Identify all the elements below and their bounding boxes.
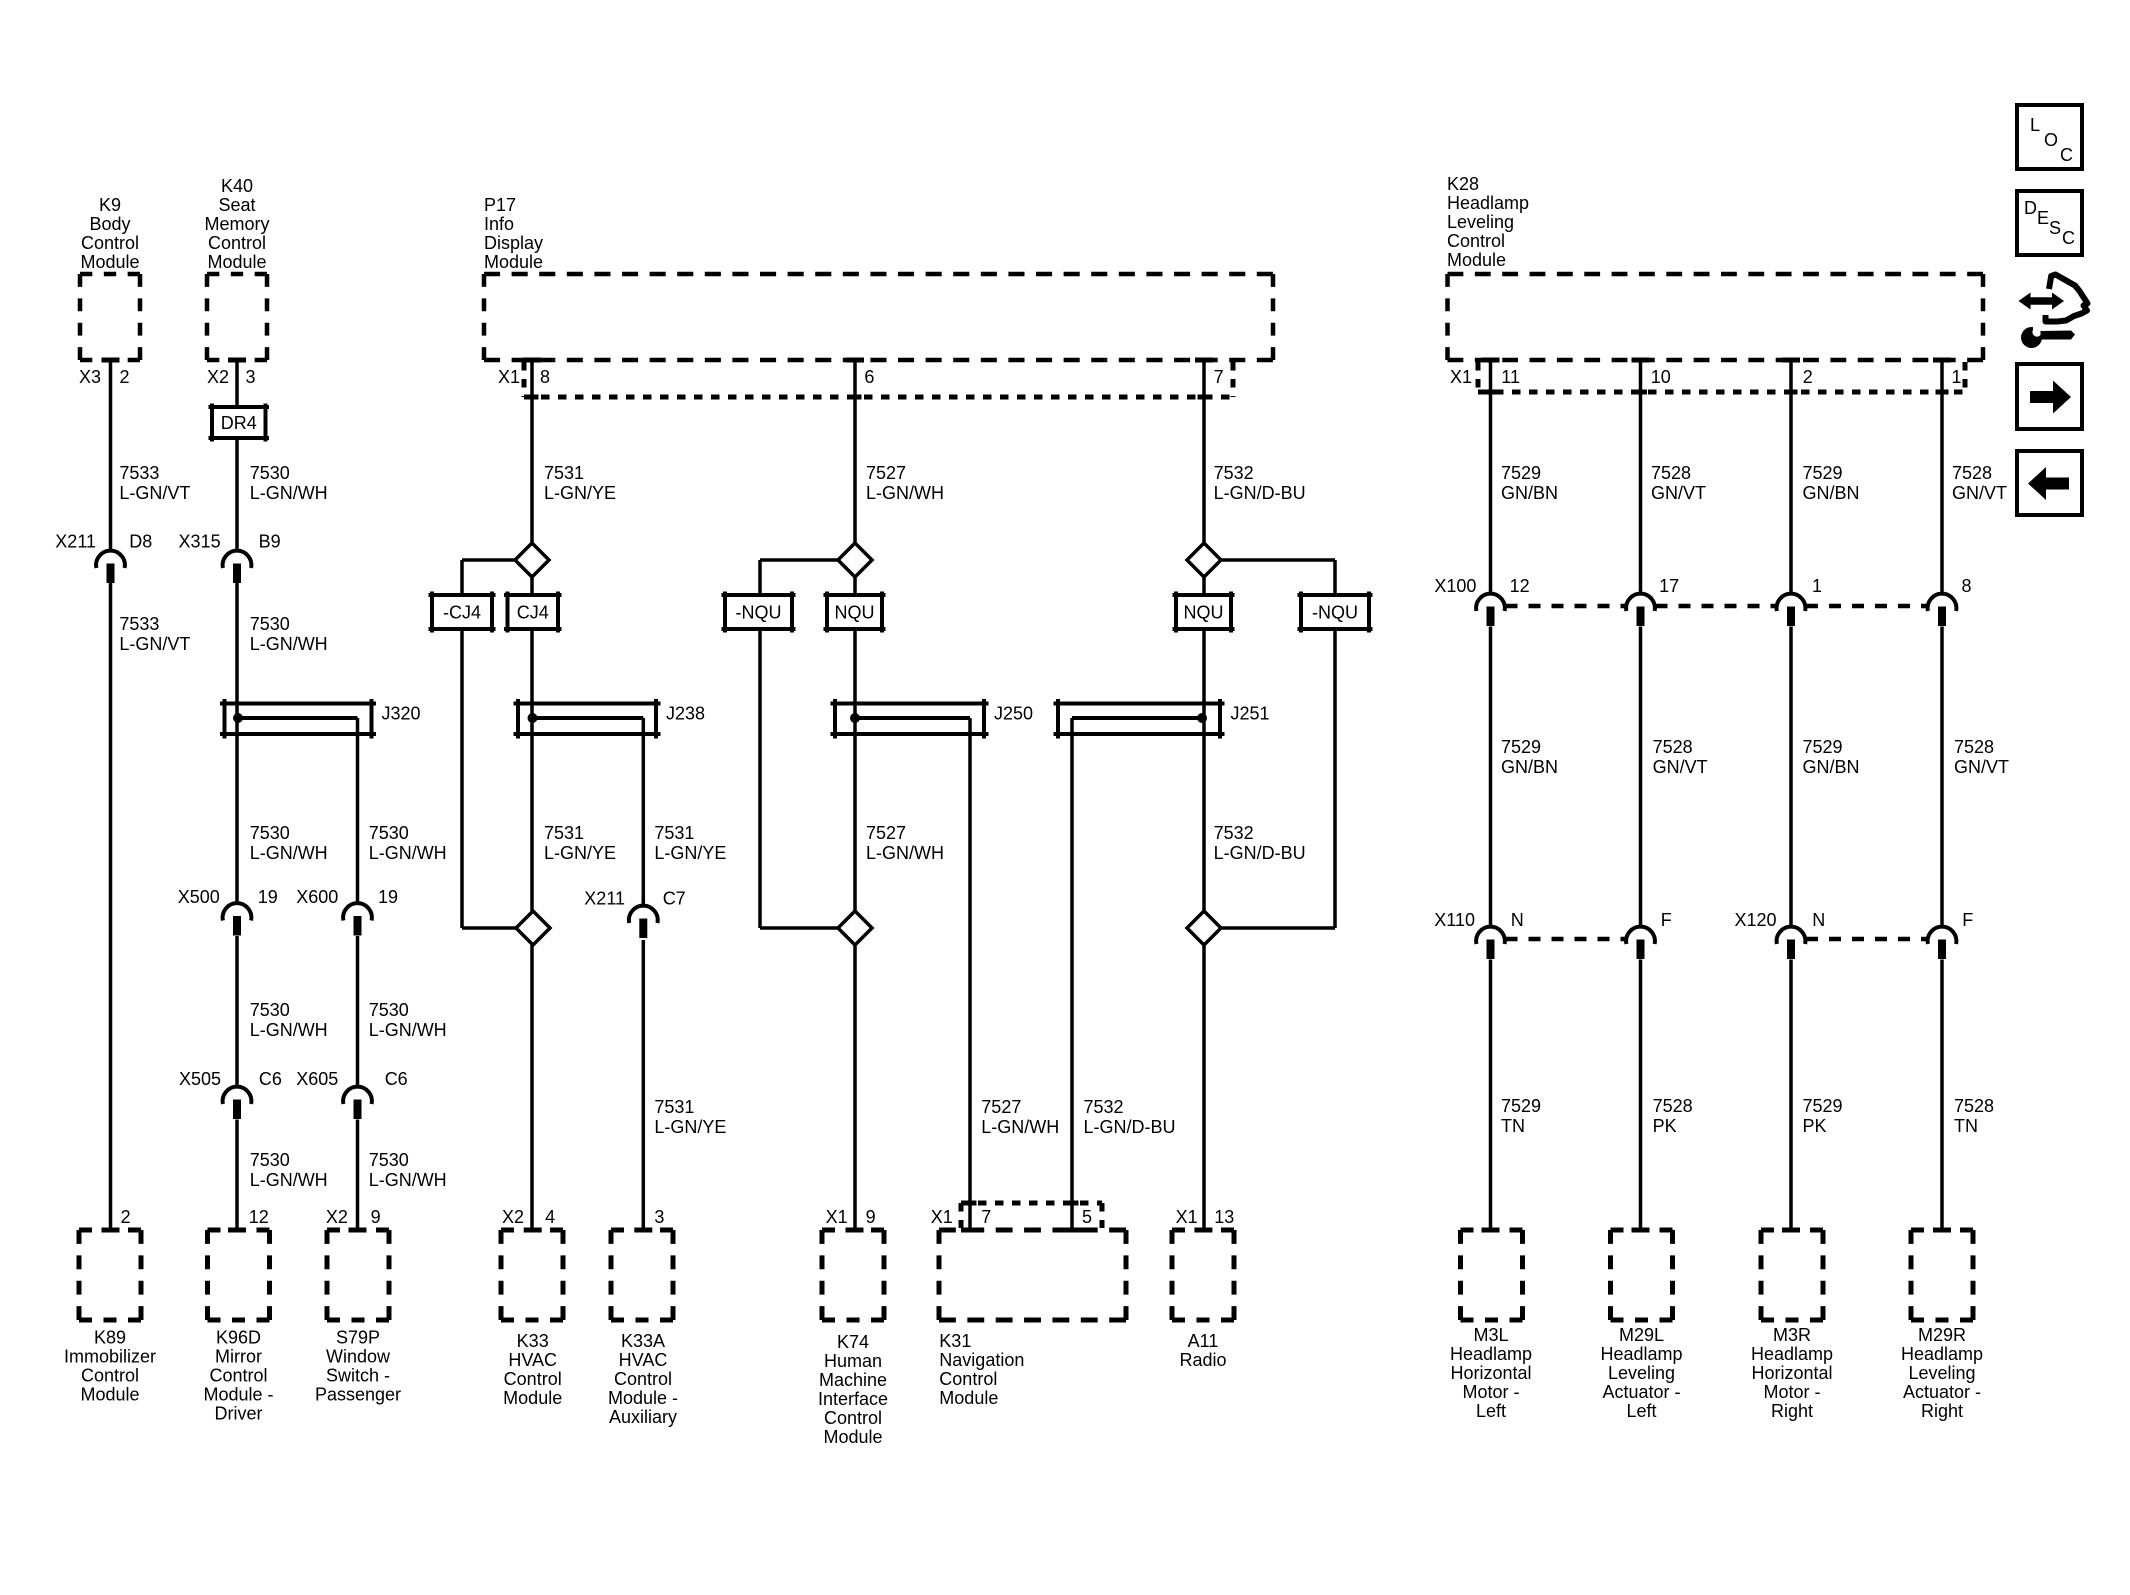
svg-text:Module: Module [1447,250,1506,270]
svg-text:7530: 7530 [250,1150,290,1170]
svg-text:12: 12 [249,1207,269,1227]
svg-text:D8: D8 [129,532,152,552]
svg-text:Leveling: Leveling [1908,1363,1975,1383]
svg-text:Driver: Driver [215,1404,263,1424]
svg-text:DR4: DR4 [221,413,257,433]
svg-text:TN: TN [1501,1116,1525,1136]
svg-text:2: 2 [121,1207,131,1227]
svg-text:Control: Control [504,1369,562,1389]
svg-text:7529: 7529 [1501,463,1541,483]
svg-text:Control: Control [81,1366,139,1386]
svg-text:GN/BN: GN/BN [1803,757,1860,777]
svg-text:K89: K89 [94,1328,126,1348]
svg-text:Human: Human [824,1351,882,1371]
svg-text:C7: C7 [663,889,686,909]
svg-text:3: 3 [246,367,256,387]
svg-text:1: 1 [1812,576,1822,596]
svg-text:CJ4: CJ4 [517,603,549,623]
svg-text:7531: 7531 [544,823,584,843]
svg-text:11: 11 [1501,367,1520,387]
svg-text:Passenger: Passenger [315,1385,401,1405]
svg-text:Memory: Memory [204,214,269,234]
svg-text:X211: X211 [55,532,96,552]
svg-text:7531: 7531 [654,823,694,843]
svg-text:GN/VT: GN/VT [1954,757,2009,777]
svg-text:4: 4 [545,1207,555,1227]
svg-text:7528: 7528 [1954,1096,1994,1116]
svg-text:Info: Info [484,214,514,234]
svg-text:N: N [1511,910,1524,930]
svg-text:X120: X120 [1734,910,1776,930]
svg-text:HVAC: HVAC [508,1350,557,1370]
svg-text:7529: 7529 [1803,1096,1843,1116]
svg-text:7530: 7530 [250,1000,290,1020]
svg-text:Module: Module [484,252,543,272]
svg-text:S: S [2049,218,2061,238]
svg-text:Control: Control [208,233,266,253]
svg-text:7533: 7533 [119,614,159,634]
svg-text:L-GN/YE: L-GN/YE [654,843,726,863]
svg-text:7531: 7531 [544,463,584,483]
svg-text:X100: X100 [1434,576,1476,596]
svg-text:7530: 7530 [250,463,290,483]
svg-text:L-GN/WH: L-GN/WH [369,1170,447,1190]
svg-text:L-GN/VT: L-GN/VT [119,634,190,654]
svg-text:O: O [2044,130,2058,150]
svg-text:L-GN/WH: L-GN/WH [250,1170,328,1190]
svg-text:L-GN/WH: L-GN/WH [981,1117,1059,1137]
svg-text:L-GN/WH: L-GN/WH [369,843,447,863]
svg-text:L-GN/WH: L-GN/WH [250,483,328,503]
svg-text:X1: X1 [826,1207,848,1227]
svg-text:F: F [1962,910,1973,930]
svg-text:7: 7 [1214,367,1224,387]
svg-text:C: C [2062,228,2075,248]
svg-text:M3R: M3R [1773,1325,1811,1345]
svg-text:M29R: M29R [1918,1325,1966,1345]
svg-text:7529: 7529 [1803,463,1843,483]
svg-text:B9: B9 [259,532,281,552]
svg-text:X110: X110 [1434,910,1475,930]
svg-text:S79P: S79P [336,1328,380,1348]
svg-text:GN/BN: GN/BN [1501,483,1558,503]
svg-text:7530: 7530 [369,1150,409,1170]
svg-text:L: L [2030,115,2040,135]
svg-text:Motor -: Motor - [1462,1382,1519,1402]
svg-text:X2: X2 [326,1207,348,1227]
svg-text:7533: 7533 [119,463,159,483]
svg-text:7530: 7530 [369,1000,409,1020]
svg-text:Machine: Machine [819,1370,887,1390]
svg-text:19: 19 [258,887,278,907]
svg-text:M29L: M29L [1619,1325,1664,1345]
svg-text:10: 10 [1651,367,1671,387]
svg-text:X315: X315 [179,532,221,552]
svg-text:Left: Left [1476,1401,1506,1421]
svg-text:7530: 7530 [250,823,290,843]
svg-text:Headlamp: Headlamp [1751,1344,1833,1364]
svg-text:7529: 7529 [1501,737,1541,757]
svg-text:X605: X605 [296,1069,338,1089]
svg-text:E: E [2037,208,2049,228]
svg-text:L-GN/YE: L-GN/YE [544,483,616,503]
svg-text:Module -: Module - [608,1388,678,1408]
svg-text:7532: 7532 [1214,823,1254,843]
svg-text:Control: Control [209,1366,267,1386]
svg-text:7527: 7527 [981,1097,1021,1117]
svg-text:Leveling: Leveling [1447,212,1514,232]
svg-text:Module: Module [823,1427,882,1447]
svg-text:2: 2 [1803,367,1813,387]
svg-text:L-GN/WH: L-GN/WH [250,1020,328,1040]
svg-text:J251: J251 [1231,704,1270,724]
svg-text:Interface: Interface [818,1389,888,1409]
svg-text:Control: Control [614,1369,672,1389]
svg-text:L-GN/WH: L-GN/WH [866,843,944,863]
svg-text:Seat: Seat [218,195,255,215]
svg-text:Left: Left [1626,1401,1656,1421]
svg-text:J238: J238 [666,704,705,724]
svg-text:Mirror: Mirror [215,1347,262,1367]
svg-text:PK: PK [1653,1116,1677,1136]
svg-text:K74: K74 [837,1332,869,1352]
svg-text:L-GN/WH: L-GN/WH [250,843,328,863]
svg-text:13: 13 [1214,1207,1234,1227]
svg-text:1: 1 [1952,367,1962,387]
svg-text:Control: Control [824,1408,882,1428]
svg-text:Module: Module [80,1385,139,1405]
svg-text:X211: X211 [584,889,625,909]
svg-text:2: 2 [120,367,130,387]
svg-text:Body: Body [89,214,130,234]
svg-text:9: 9 [866,1207,876,1227]
svg-text:GN/VT: GN/VT [1651,483,1706,503]
svg-text:7528: 7528 [1954,737,1994,757]
svg-text:X500: X500 [178,887,220,907]
svg-text:Headlamp: Headlamp [1447,193,1529,213]
svg-text:8: 8 [540,367,550,387]
svg-text:HVAC: HVAC [619,1350,668,1370]
svg-text:L-GN/YE: L-GN/YE [544,843,616,863]
svg-text:7528: 7528 [1653,1096,1693,1116]
svg-text:7527: 7527 [866,463,906,483]
svg-text:7528: 7528 [1651,463,1691,483]
svg-text:7: 7 [981,1207,991,1227]
svg-text:X1: X1 [498,367,520,387]
svg-text:L-GN/D-BU: L-GN/D-BU [1084,1117,1176,1137]
svg-text:12: 12 [1510,576,1530,596]
svg-text:8: 8 [1962,576,1972,596]
svg-text:L-GN/WH: L-GN/WH [250,634,328,654]
svg-text:L-GN/YE: L-GN/YE [654,1117,726,1137]
svg-text:J320: J320 [382,704,421,724]
svg-text:X3: X3 [79,367,101,387]
svg-text:L-GN/WH: L-GN/WH [369,1020,447,1040]
svg-text:Switch -: Switch - [326,1366,390,1386]
svg-text:Leveling: Leveling [1608,1363,1675,1383]
svg-text:D: D [2024,198,2037,218]
svg-text:7529: 7529 [1803,737,1843,757]
svg-text:J250: J250 [994,704,1033,724]
svg-text:K31: K31 [939,1331,971,1351]
svg-text:K9: K9 [99,195,121,215]
svg-text:F: F [1661,910,1672,930]
svg-text:A11: A11 [1188,1331,1219,1351]
svg-text:X1: X1 [1176,1207,1198,1227]
svg-text:Headlamp: Headlamp [1600,1344,1682,1364]
svg-text:7530: 7530 [250,614,290,634]
svg-text:Headlamp: Headlamp [1901,1344,1983,1364]
svg-text:X2: X2 [502,1207,524,1227]
svg-text:Right: Right [1771,1401,1813,1421]
svg-text:Right: Right [1921,1401,1963,1421]
svg-text:GN/VT: GN/VT [1653,757,1708,777]
svg-text:X1: X1 [1450,367,1472,387]
svg-text:6: 6 [864,367,874,387]
svg-text:7529: 7529 [1501,1096,1541,1116]
svg-text:NQU: NQU [1184,603,1224,623]
svg-text:C: C [2060,145,2073,165]
svg-text:GN/BN: GN/BN [1803,483,1860,503]
svg-text:Module: Module [939,1388,998,1408]
svg-text:7530: 7530 [369,823,409,843]
svg-text:Control: Control [939,1369,997,1389]
svg-text:L-GN/D-BU: L-GN/D-BU [1214,483,1306,503]
svg-text:Horizontal: Horizontal [1751,1363,1832,1383]
svg-text:7527: 7527 [866,823,906,843]
svg-text:Horizontal: Horizontal [1450,1363,1531,1383]
svg-text:7531: 7531 [654,1097,694,1117]
svg-text:7532: 7532 [1214,463,1254,483]
svg-text:7528: 7528 [1653,737,1693,757]
svg-text:C6: C6 [259,1069,282,1089]
svg-text:Headlamp: Headlamp [1450,1344,1532,1364]
svg-text:Display: Display [484,233,543,253]
svg-text:Window: Window [326,1347,391,1367]
svg-text:7532: 7532 [1084,1097,1124,1117]
svg-text:7528: 7528 [1952,463,1992,483]
svg-text:K40: K40 [221,176,253,196]
svg-text:K33A: K33A [621,1331,665,1351]
svg-text:Module: Module [80,252,139,272]
svg-text:17: 17 [1659,576,1679,596]
svg-text:NQU: NQU [835,603,875,623]
svg-text:5: 5 [1082,1207,1092,1227]
svg-text:X1: X1 [931,1207,953,1227]
svg-text:3: 3 [654,1207,664,1227]
svg-text:P17: P17 [484,195,516,215]
svg-text:Immobilizer: Immobilizer [64,1347,156,1367]
svg-text:K33: K33 [517,1331,549,1351]
svg-text:M3L: M3L [1473,1325,1508,1345]
svg-text:L-GN/D-BU: L-GN/D-BU [1214,843,1306,863]
svg-text:Auxiliary: Auxiliary [609,1407,677,1427]
svg-text:GN/BN: GN/BN [1501,757,1558,777]
svg-text:19: 19 [378,887,398,907]
svg-text:Actuator -: Actuator - [1903,1382,1981,1402]
svg-text:N: N [1812,910,1825,930]
svg-text:X505: X505 [179,1069,221,1089]
svg-text:GN/VT: GN/VT [1952,483,2007,503]
svg-text:Actuator -: Actuator - [1602,1382,1680,1402]
svg-text:Module: Module [207,252,266,272]
svg-text:Control: Control [81,233,139,253]
svg-text:X600: X600 [296,887,338,907]
svg-text:X2: X2 [207,367,229,387]
svg-text:C6: C6 [385,1069,408,1089]
svg-text:Radio: Radio [1179,1350,1226,1370]
svg-text:-NQU: -NQU [1312,603,1358,623]
svg-text:L-GN/WH: L-GN/WH [866,483,944,503]
svg-text:-CJ4: -CJ4 [443,603,481,623]
svg-text:TN: TN [1954,1116,1978,1136]
svg-text:Control: Control [1447,231,1505,251]
svg-text:Module -: Module - [203,1385,273,1405]
svg-text:PK: PK [1803,1116,1827,1136]
svg-text:Module: Module [503,1388,562,1408]
svg-text:K96D: K96D [216,1328,261,1348]
svg-text:Navigation: Navigation [939,1350,1024,1370]
svg-text:Motor -: Motor - [1763,1382,1820,1402]
svg-text:-NQU: -NQU [736,603,782,623]
svg-text:L-GN/VT: L-GN/VT [119,483,190,503]
svg-text:9: 9 [371,1207,381,1227]
svg-text:K28: K28 [1447,174,1479,194]
